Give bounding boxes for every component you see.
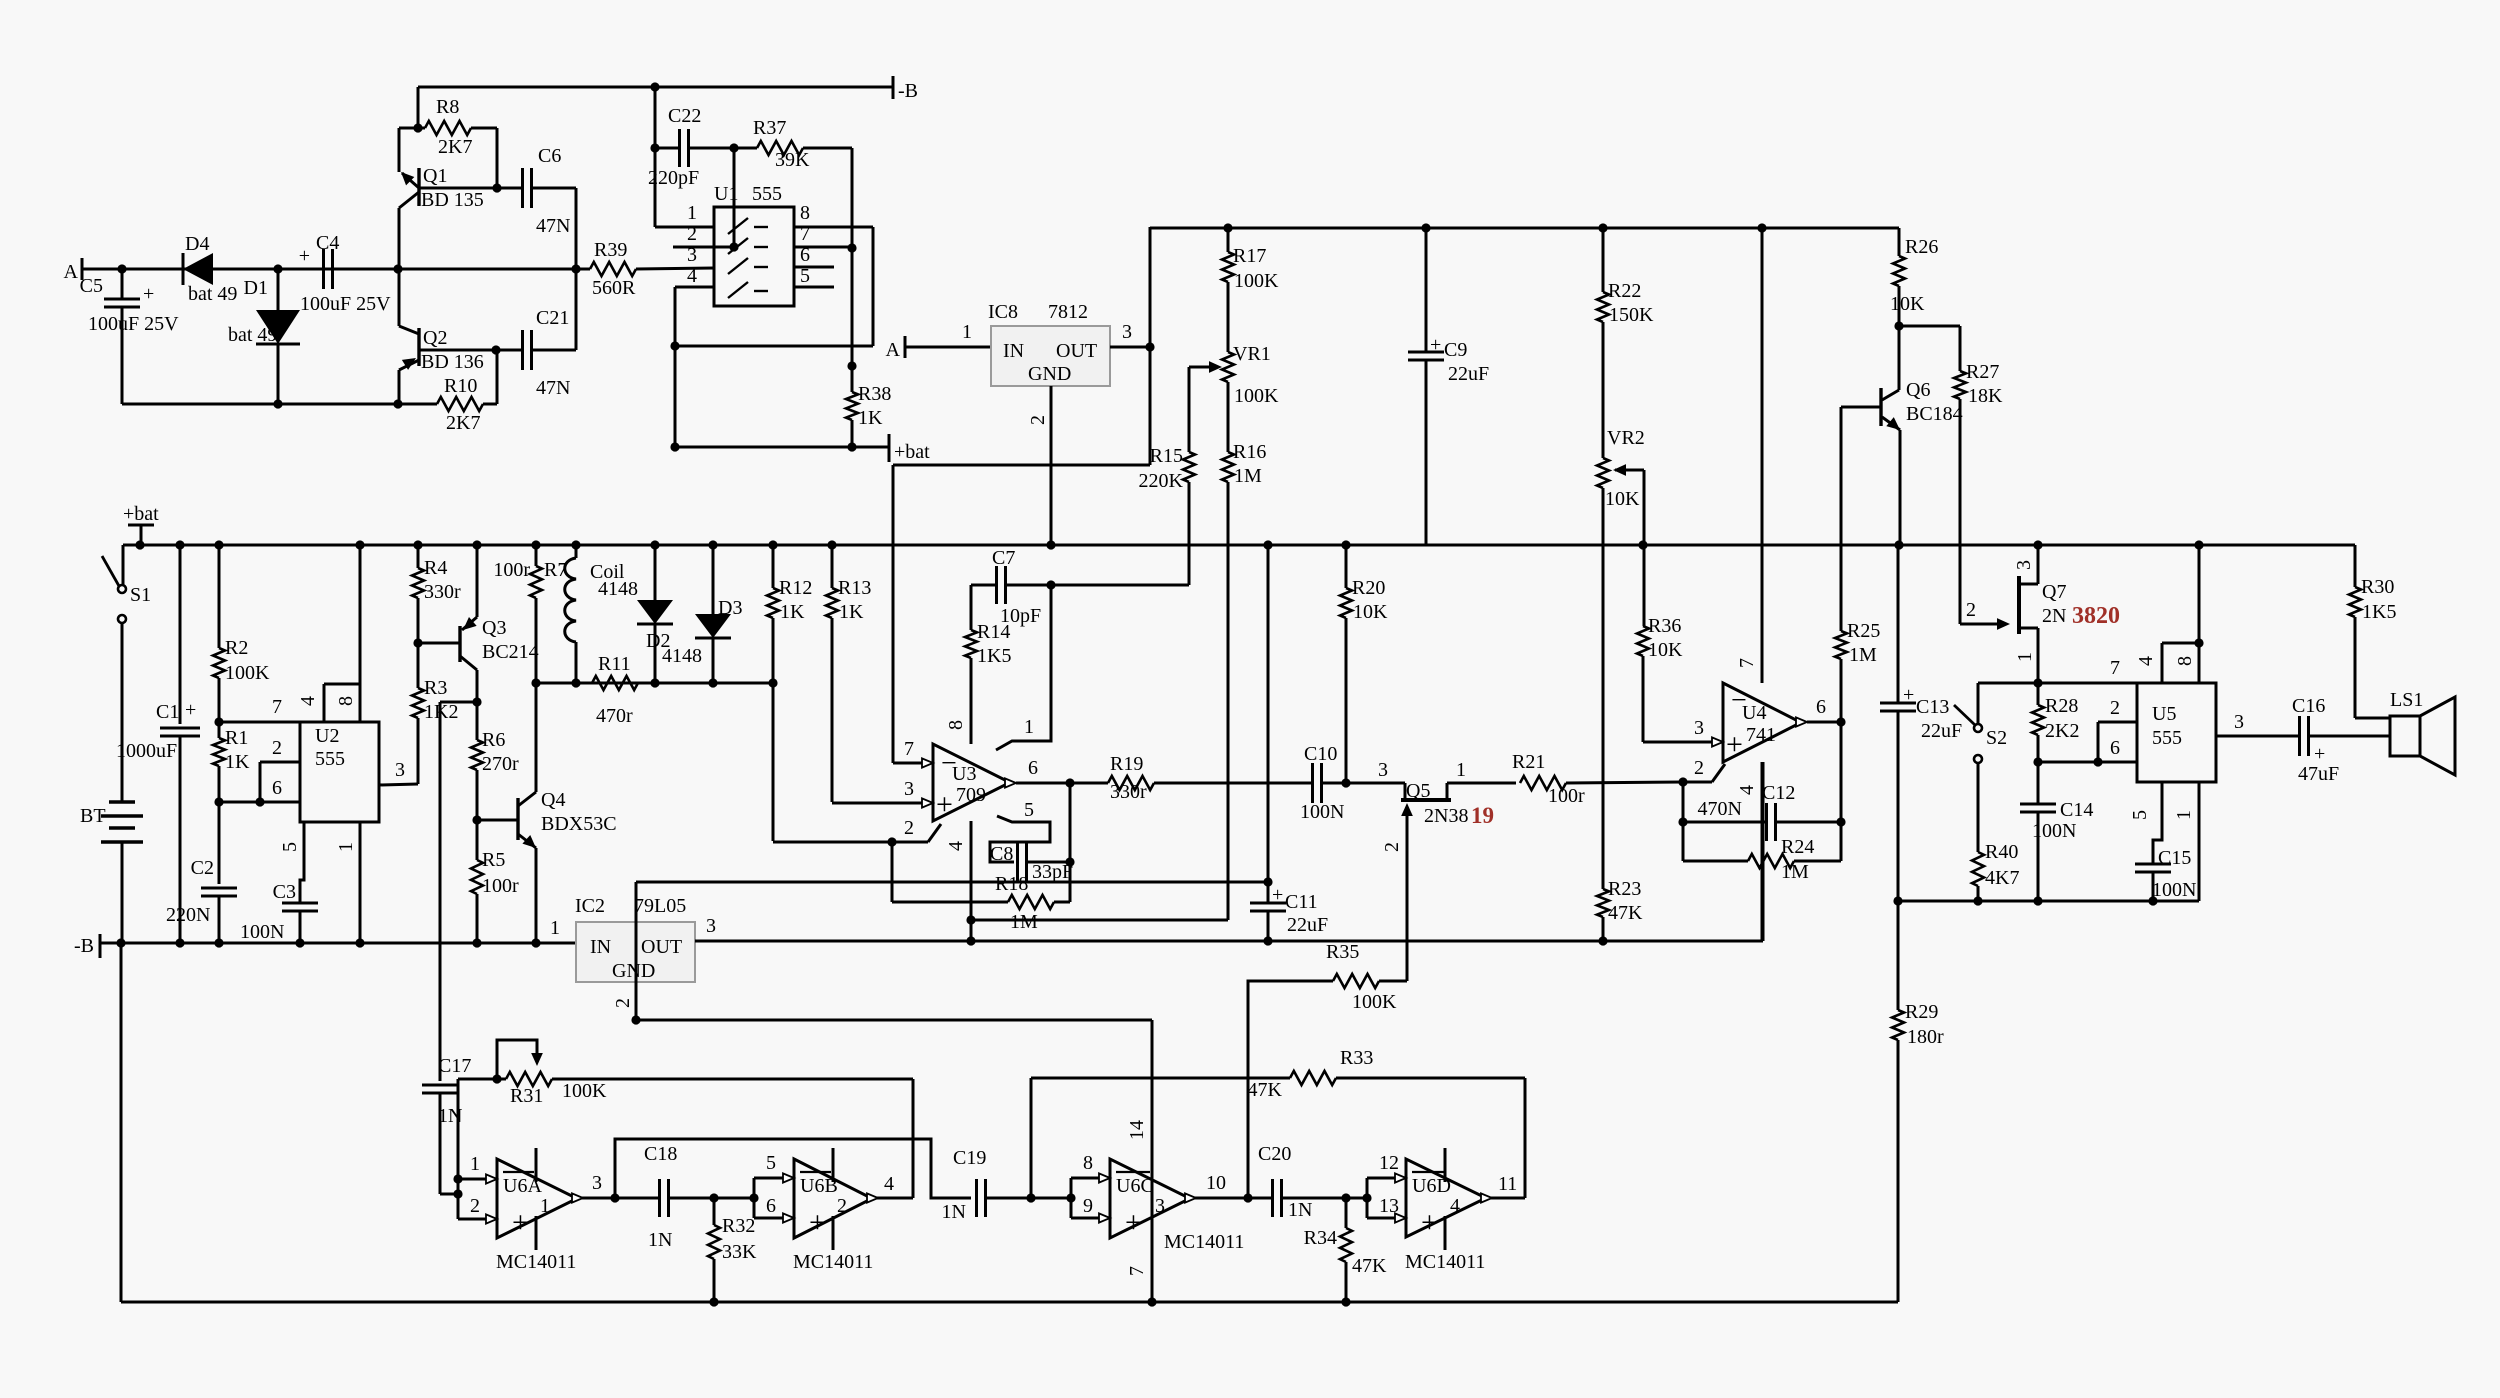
svg-text:C7: C7 — [992, 547, 1015, 569]
resistor R38 1K — [846, 383, 891, 429]
wire U6A output to C19 loop — [615, 1139, 971, 1198]
resistor R16 1M — [1222, 441, 1266, 920]
resistor R40 4K7 — [1972, 841, 2019, 901]
svg-text:4148: 4148 — [662, 645, 702, 667]
junction driver line / Q4 collector-R7 — [531, 678, 540, 687]
junction rail / +bat column — [135, 540, 144, 549]
svg-text:270r: 270r — [482, 753, 519, 775]
svg-text:+: + — [1430, 334, 1441, 356]
svg-text:9: 9 — [1083, 1195, 1093, 1217]
svg-text:+: + — [143, 283, 154, 305]
U6A pin 1 — [458, 1153, 497, 1184]
svg-text:C2: C2 — [191, 857, 214, 879]
U1 pin 7 — [794, 223, 857, 253]
svg-text:19: 19 — [1471, 803, 1494, 828]
U1 internal switch row 1 — [728, 218, 768, 234]
svg-text:2N38: 2N38 — [1424, 805, 1468, 827]
svg-text:3: 3 — [706, 915, 716, 937]
svg-text:VR2: VR2 — [1607, 427, 1645, 449]
svg-text:100N: 100N — [240, 921, 284, 943]
U1 pin 2 — [673, 223, 739, 252]
svg-text:D3: D3 — [718, 597, 742, 619]
svg-text:1: 1 — [962, 321, 972, 343]
svg-text:1: 1 — [1456, 759, 1466, 781]
junction A line / D1 — [273, 264, 282, 273]
resistor R7 100r — [493, 545, 567, 683]
svg-text:1K: 1K — [225, 751, 250, 773]
U1 pin 5 — [794, 265, 834, 287]
svg-text:47N: 47N — [536, 377, 570, 399]
U5 pin 1 — [2153, 782, 2199, 901]
svg-text:+: + — [1903, 684, 1914, 706]
svg-text:U6C: U6C — [1116, 1175, 1154, 1197]
svg-text:4148: 4148 — [598, 578, 638, 600]
junction U3 pin4 column / R16 line — [966, 915, 975, 924]
svg-text:1N: 1N — [648, 1229, 672, 1251]
IC8 pin 2 GND — [1027, 386, 1051, 545]
svg-text:1M: 1M — [1010, 911, 1038, 933]
junction C18 / R32 — [709, 1193, 718, 1202]
svg-text:C20: C20 — [1258, 1143, 1291, 1165]
wire C6/C21 right column — [575, 188, 578, 350]
IC2 pin 2 GND — [612, 882, 636, 1020]
diode D2 4148 — [598, 545, 673, 683]
svg-text:A: A — [886, 339, 901, 361]
U6A pin 2 — [458, 1195, 497, 1224]
U5 pin 7 label — [2110, 657, 2120, 679]
junction +12V rail / U4 pin7 column — [1757, 223, 1766, 232]
svg-text:C3: C3 — [273, 881, 296, 903]
U3 pin 6 output — [1005, 757, 1070, 788]
junction rail / C11 column — [1263, 540, 1272, 549]
svg-text:+bat: +bat — [123, 503, 159, 525]
svg-text:2: 2 — [1027, 415, 1049, 425]
svg-text:C14: C14 — [2060, 799, 2093, 821]
svg-text:+: + — [1125, 1206, 1142, 1239]
U3 pin 3 — [832, 778, 933, 808]
svg-text:10: 10 — [1206, 1172, 1226, 1194]
svg-text:U6A: U6A — [503, 1175, 542, 1197]
svg-text:100K: 100K — [1234, 385, 1279, 407]
svg-text:Q4: Q4 — [541, 789, 565, 811]
node -B terminal (left) — [74, 934, 100, 958]
junction +12V rail / R17 — [1223, 223, 1232, 232]
svg-text:2K2: 2K2 — [2045, 720, 2079, 742]
regulator IC8 7812 — [988, 301, 1110, 386]
resistor R23 47K — [1597, 878, 1643, 941]
ic U1 555 box — [714, 183, 794, 306]
wire R16 bottom to U3 pin4 column — [971, 919, 1228, 922]
junction U6D input node — [1362, 1193, 1371, 1202]
wire U3 output to R18 right — [1069, 783, 1072, 902]
speaker LS1 — [2390, 689, 2455, 775]
U1 internal switch row 3 — [728, 258, 768, 274]
svg-text:R12: R12 — [779, 577, 812, 599]
capacitor C9 22uF — [1408, 228, 1489, 545]
junction rail / R2 — [214, 540, 223, 549]
junction C10 / R20 / Q5 drain — [1341, 778, 1350, 787]
junction driver line / coil — [571, 678, 580, 687]
svg-text:R31: R31 — [510, 1085, 543, 1107]
svg-text:1: 1 — [335, 842, 357, 852]
svg-text:C4: C4 — [316, 232, 339, 254]
wire bottom ground rail — [121, 943, 1898, 1302]
svg-text:1K: 1K — [858, 407, 883, 429]
junction -B rail / battery — [116, 938, 125, 947]
U6C supply column pins 14 and 7 — [1126, 1020, 1152, 1302]
junction VR2 wiper / supply rail / R36 — [1638, 540, 1647, 549]
resistor R1 1K — [213, 722, 250, 802]
svg-text:U5: U5 — [2152, 703, 2176, 725]
svg-text:2: 2 — [1381, 842, 1403, 852]
junction C11 / -B rail — [1263, 936, 1272, 945]
svg-text:+: + — [809, 1206, 826, 1239]
transistor Q2 BD136 — [399, 269, 496, 404]
resistor R21 100r — [1512, 751, 1683, 807]
svg-text:13: 13 — [1379, 1195, 1399, 1217]
U2 pin 1 — [335, 822, 360, 943]
svg-text:1K: 1K — [839, 601, 864, 623]
resistor R36 10K — [1637, 615, 1716, 742]
junction +12V rail / C9 — [1421, 223, 1430, 232]
node -B terminal (top) — [893, 76, 918, 102]
resistor R31 100K (preset) — [458, 1040, 913, 1107]
svg-text:14: 14 — [1126, 1120, 1148, 1140]
U1 pin 1 — [655, 202, 714, 227]
svg-text:R36: R36 — [1648, 615, 1681, 637]
junction U6C input node — [1066, 1193, 1075, 1202]
svg-text:5: 5 — [800, 265, 810, 287]
svg-text:100r: 100r — [1548, 785, 1585, 807]
svg-text:R16: R16 — [1233, 441, 1266, 463]
junction driver line / D3 — [708, 678, 717, 687]
opamp U3 709 — [933, 744, 1010, 821]
node A terminal (left) — [64, 258, 82, 283]
svg-text:2: 2 — [837, 1195, 847, 1217]
junction U3 pin2 node — [887, 837, 896, 846]
svg-text:R17: R17 — [1233, 245, 1266, 267]
svg-text:1: 1 — [687, 202, 697, 224]
svg-text:2: 2 — [272, 737, 282, 759]
U4 pin 6 output — [1796, 696, 1841, 727]
junction -B rail / C2 — [214, 938, 223, 947]
svg-text:7: 7 — [2110, 657, 2120, 679]
capacitor C21 47N — [496, 307, 576, 399]
svg-text:220pF: 220pF — [648, 167, 699, 189]
svg-text:MC14011: MC14011 — [1405, 1251, 1485, 1273]
U5 pin 6 — [2038, 737, 2137, 767]
junction osc gnd / C15 — [2148, 896, 2157, 905]
junction rail / R7 — [531, 540, 540, 549]
node +bat terminal — [889, 434, 930, 463]
svg-text:555: 555 — [752, 183, 782, 205]
resistor R20 10K — [1340, 545, 1388, 783]
svg-text:R25: R25 — [1847, 620, 1880, 642]
resistor R17 100K — [1222, 228, 1279, 352]
capacitor C18 1N — [615, 1143, 714, 1251]
junction R32 / bottom rail — [709, 1297, 718, 1306]
svg-text:4: 4 — [1736, 785, 1758, 795]
U3 pin 5 — [990, 799, 1050, 862]
svg-text:BC214: BC214 — [482, 641, 539, 663]
wire U3 pin7 supply column — [892, 465, 895, 763]
wire IC8 OUT column to +12V rail — [1149, 227, 1152, 465]
junction -B rail / U2 pin1 — [355, 938, 364, 947]
svg-text:1: 1 — [1024, 716, 1034, 738]
svg-text:BD 136: BD 136 — [421, 351, 484, 373]
IC8 pin 1 label — [962, 321, 972, 343]
svg-text:-B: -B — [898, 80, 918, 102]
wire bottom return line left section — [122, 403, 398, 406]
svg-text:2: 2 — [1966, 599, 1976, 621]
svg-text:R10: R10 — [444, 375, 477, 397]
svg-text:OUT: OUT — [641, 936, 682, 958]
junction osc gnd / C14 — [2033, 896, 2042, 905]
svg-text:IN: IN — [1003, 340, 1024, 362]
junction R8 left / Q1 emitter — [413, 123, 422, 132]
svg-text:470r: 470r — [596, 705, 633, 727]
U3 pin 4 — [945, 821, 971, 941]
svg-text:180r: 180r — [1907, 1026, 1944, 1048]
IC2 pin 1 label — [550, 917, 560, 939]
wire VCO feedback line (C11 top) — [636, 881, 1268, 884]
svg-text:R32: R32 — [722, 1215, 755, 1237]
svg-text:LS1: LS1 — [2390, 689, 2423, 711]
U3 pin 2 — [892, 817, 941, 842]
U6D pin 12 — [1367, 1152, 1406, 1183]
svg-text:1000uF: 1000uF — [116, 740, 177, 762]
capacitor C8 33pF — [990, 843, 1073, 883]
svg-text:+bat: +bat — [894, 441, 930, 463]
junction driver line / D2 — [650, 678, 659, 687]
svg-text:R33: R33 — [1340, 1047, 1373, 1069]
svg-text:R38: R38 — [858, 383, 891, 405]
U1 pin 8 — [675, 202, 873, 346]
junction -B rail / C1 — [175, 938, 184, 947]
svg-text:D4: D4 — [185, 233, 209, 255]
wire C20 to U6D input — [1346, 1197, 1367, 1200]
junction driver line / R12 column — [768, 678, 777, 687]
svg-text:79L05: 79L05 — [634, 895, 686, 917]
resistor R3 1K2 — [412, 643, 458, 784]
wire top rail (-B net top left) — [418, 86, 893, 89]
wire U6B output riser — [912, 1079, 915, 1198]
diode D4 bat49 — [183, 233, 237, 305]
svg-text:R28: R28 — [2045, 695, 2078, 717]
junction IC2 GND corner — [631, 1015, 640, 1024]
svg-text:100uF 25V: 100uF 25V — [300, 293, 391, 315]
svg-text:4: 4 — [687, 265, 697, 287]
capacitor C5 — [80, 269, 179, 404]
svg-text:R30: R30 — [2361, 576, 2394, 598]
svg-text:6: 6 — [766, 1195, 776, 1217]
transistor Q3 BC214 — [418, 545, 539, 702]
resistor R15 220K — [1051, 367, 1195, 585]
svg-text:39K: 39K — [775, 149, 810, 171]
resistor R39 560R — [590, 239, 636, 299]
junction C8 right — [1065, 857, 1074, 866]
U5 pin 5 / capacitor C15 100N — [2129, 782, 2196, 901]
svg-text:R6: R6 — [482, 729, 505, 751]
svg-text:MC14011: MC14011 — [1164, 1231, 1244, 1253]
resistor R19 330r — [1070, 753, 1313, 803]
svg-text:2N: 2N — [2042, 605, 2066, 627]
svg-text:VR1: VR1 — [1233, 343, 1271, 365]
wire -B rail left — [100, 942, 576, 945]
svg-text:OUT: OUT — [1056, 340, 1097, 362]
junction R1 / C2 / U2 pin6 — [214, 797, 223, 806]
junction U6A output — [610, 1193, 619, 1202]
svg-text:+: + — [512, 1206, 529, 1239]
svg-text:100N: 100N — [1300, 801, 1344, 823]
svg-text:R15: R15 — [1150, 445, 1183, 467]
svg-text:1: 1 — [470, 1153, 480, 1175]
U6D pin 11 output — [1481, 1173, 1517, 1203]
svg-text:BDX53C: BDX53C — [541, 813, 617, 835]
U4 pin 7 — [1736, 228, 1762, 683]
resistor R13 1K — [826, 545, 933, 803]
svg-text:Q1: Q1 — [423, 165, 447, 187]
svg-text:1K: 1K — [780, 601, 805, 623]
svg-text:100N: 100N — [2152, 879, 2196, 901]
svg-text:470N: 470N — [1698, 798, 1742, 820]
svg-text:555: 555 — [2152, 727, 2182, 749]
wire A to IC8 IN — [905, 346, 991, 349]
transistor Q5 2N3819 — [1346, 759, 1516, 981]
junction U3 pin4 / -B rail — [966, 936, 975, 945]
ic U5 555 box — [2137, 683, 2216, 782]
svg-text:47N: 47N — [536, 215, 570, 237]
U1 internal switch row 2 — [728, 238, 768, 254]
capacitor C19 1N — [942, 1147, 1031, 1223]
svg-text:10K: 10K — [1648, 639, 1683, 661]
svg-text:100K: 100K — [1234, 270, 1279, 292]
svg-text:2: 2 — [2110, 697, 2120, 719]
svg-text:R21: R21 — [1512, 751, 1545, 773]
wire C18 to U6B input — [714, 1197, 754, 1200]
U5 pin 2 — [2098, 697, 2137, 762]
U2 pins 4 and 8 — [297, 545, 360, 722]
svg-text:7: 7 — [1736, 658, 1758, 668]
svg-text:R1: R1 — [225, 727, 248, 749]
svg-text:10K: 10K — [1605, 488, 1640, 510]
U6B pin 4 output — [867, 1173, 913, 1203]
svg-text:C11: C11 — [1285, 891, 1318, 913]
svg-text:8: 8 — [335, 696, 357, 706]
junction Q3 collector / R6 / C17 branch — [472, 697, 481, 706]
junction osc gnd / R40 — [1973, 896, 1982, 905]
svg-text:3: 3 — [2234, 711, 2244, 733]
U5 pins 4 and 8 — [2135, 545, 2204, 683]
wire +bat rail (U1 section) — [675, 346, 889, 447]
svg-text:C9: C9 — [1444, 339, 1467, 361]
svg-text:IC2: IC2 — [575, 895, 605, 917]
node +bat terminal (left) — [123, 503, 159, 545]
wire U5 pin7 line — [1978, 682, 2137, 685]
svg-text:R24: R24 — [1781, 836, 1814, 858]
svg-text:2: 2 — [612, 998, 634, 1008]
svg-text:bat 49: bat 49 — [228, 324, 277, 346]
svg-text:4: 4 — [1450, 1195, 1460, 1217]
junction C22 / R37 / U1 internal — [729, 143, 738, 152]
junction -B rail / C3 — [295, 938, 304, 947]
junction rail / R20 — [1341, 540, 1350, 549]
wire +12V top rail — [1150, 227, 1899, 230]
junction Q7 source / R28 / U5 pin7 — [2033, 678, 2042, 687]
junction R2 / R1 / U2 pin7 — [214, 717, 223, 726]
svg-text:R35: R35 — [1326, 941, 1359, 963]
resistor R8 2K7 — [418, 96, 497, 188]
junction R38 top — [847, 361, 856, 370]
U4 pin 2 — [1683, 757, 1725, 782]
U5 pin 3 / capacitor C16 47uF — [2216, 695, 2390, 785]
U1 pin 3 — [687, 244, 697, 266]
svg-text:220N: 220N — [166, 904, 210, 926]
svg-text:22uF: 22uF — [1287, 914, 1328, 936]
svg-text:100uF 25V: 100uF 25V — [88, 313, 179, 335]
svg-text:+: + — [1726, 728, 1743, 761]
svg-text:100r: 100r — [493, 559, 530, 581]
junction Q2 base / R10 / C21 — [491, 345, 500, 354]
U6B pin 6 — [754, 1195, 794, 1223]
wire U6A input bracket column — [457, 1079, 460, 1219]
svg-text:3820: 3820 — [2072, 603, 2120, 629]
svg-text:47K: 47K — [1352, 1255, 1387, 1277]
svg-text:Q7: Q7 — [2042, 581, 2066, 603]
resistor R2 100K — [213, 545, 270, 722]
capacitor C20 1N — [1248, 1143, 1346, 1221]
svg-text:R40: R40 — [1985, 841, 2018, 863]
svg-text:+: + — [1421, 1206, 1438, 1239]
svg-text:100K: 100K — [225, 662, 270, 684]
nand U6D MC14011 — [1405, 1148, 1486, 1273]
svg-text:Q2: Q2 — [423, 327, 447, 349]
resistor R30 1K5 — [2349, 545, 2396, 718]
wire +bat to IC8 OUT — [893, 464, 1150, 467]
wire A input line — [82, 268, 714, 269]
junction return line / Q2 collector — [393, 399, 402, 408]
resistor R14 1K5 — [965, 621, 1011, 744]
svg-text:R8: R8 — [436, 96, 459, 118]
svg-text:3: 3 — [904, 778, 914, 800]
svg-text:R27: R27 — [1966, 361, 1999, 383]
junction U4 pin2 node — [1678, 777, 1687, 786]
wire U6B input bracket — [753, 1178, 756, 1218]
svg-text:Q5: Q5 — [1406, 780, 1430, 802]
junction C11 top / feedback line — [1263, 877, 1272, 886]
svg-text:R26: R26 — [1905, 236, 1938, 258]
svg-text:bat 49: bat 49 — [188, 283, 237, 305]
IC8 pin 3 — [1110, 321, 1150, 347]
U4 pin 4 — [1736, 762, 1762, 941]
wire C7 left to R14 — [970, 585, 973, 630]
svg-text:4: 4 — [945, 841, 967, 851]
resistor R22 150K — [1597, 228, 1654, 458]
svg-text:+: + — [1272, 884, 1283, 906]
nand U6B MC14011 — [793, 1148, 873, 1273]
capacitor C17 1N — [422, 1055, 471, 1194]
svg-text:U6D: U6D — [1412, 1175, 1451, 1197]
U4 pin 3 — [1694, 717, 1723, 747]
svg-text:1N: 1N — [1288, 1199, 1312, 1221]
svg-text:R29: R29 — [1905, 1001, 1938, 1023]
svg-text:C19: C19 — [953, 1147, 986, 1169]
junction U6B input node — [749, 1193, 758, 1202]
resistor R10 2K7 — [398, 350, 497, 434]
junction C22 left — [650, 143, 659, 152]
junction C20 / R34 — [1341, 1193, 1350, 1202]
junction rail / D3 — [708, 540, 717, 549]
